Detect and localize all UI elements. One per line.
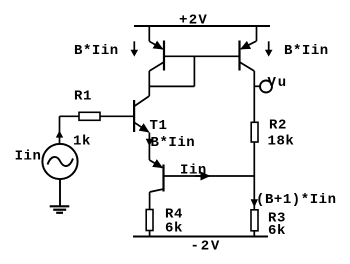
svg-text:R2: R2 <box>269 118 287 134</box>
svg-text:6k: 6k <box>268 223 286 239</box>
svg-text:B*Iin: B*Iin <box>284 43 329 59</box>
svg-text:Iin: Iin <box>180 163 207 179</box>
svg-text:R1: R1 <box>74 88 92 104</box>
svg-text:T1: T1 <box>150 118 168 134</box>
svg-text:Vu: Vu <box>268 75 288 91</box>
svg-text:B*Iin: B*Iin <box>74 43 119 59</box>
svg-text:6k: 6k <box>165 221 183 237</box>
svg-text:1k: 1k <box>73 134 91 150</box>
svg-text:+2V: +2V <box>179 13 208 29</box>
svg-text:18k: 18k <box>268 133 295 149</box>
svg-text:(B+1)*Iin: (B+1)*Iin <box>256 192 337 208</box>
svg-text:Iin: Iin <box>15 149 42 165</box>
svg-text:B*Iin: B*Iin <box>151 135 196 151</box>
svg-text:-2V: -2V <box>191 239 222 255</box>
